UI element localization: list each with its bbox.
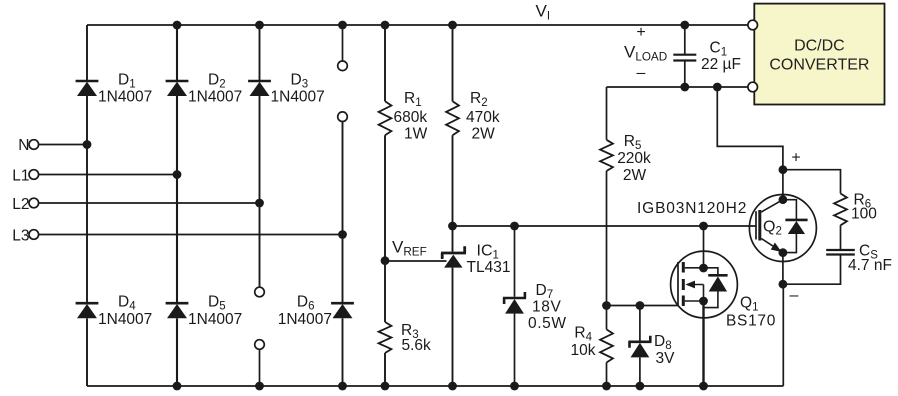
svg-text:100: 100 bbox=[851, 206, 877, 223]
wire L3 input bbox=[39, 234, 343, 236]
diode D6 1N4007 bbox=[331, 303, 354, 318]
svg-text:+: + bbox=[791, 150, 800, 167]
wire C1 top stub bbox=[684, 25, 686, 55]
wire Q2 branch jog bbox=[717, 87, 783, 170]
node L2 junction bbox=[255, 199, 264, 208]
wire VREF to IC1 reference bbox=[385, 260, 447, 262]
svg-text:D6: D6 bbox=[297, 294, 315, 313]
node bottom rail / D6 column bbox=[338, 382, 347, 391]
wire column D6 lower bbox=[342, 121, 344, 386]
diode D7 zener 18V bbox=[503, 292, 526, 314]
terminal L3 bbox=[29, 230, 39, 240]
svg-text:CONVERTER: CONVERTER bbox=[769, 57, 869, 74]
node Q1 source bbox=[699, 297, 708, 306]
svg-text:+: + bbox=[636, 24, 645, 41]
terminal DC/DC input + bbox=[748, 20, 758, 30]
svg-text:470k: 470k bbox=[466, 109, 500, 126]
svg-text:0.5W: 0.5W bbox=[528, 315, 567, 332]
wire bottom rail bbox=[87, 385, 783, 387]
wire column D2-D5 bbox=[176, 25, 178, 386]
svg-text:N: N bbox=[18, 137, 29, 154]
node 226 / R2-IC1 column bbox=[448, 222, 457, 231]
svg-text:3V: 3V bbox=[656, 350, 676, 367]
wire column R5-R4 bbox=[606, 87, 608, 386]
node C1-minus / Q2 branch bbox=[713, 83, 722, 92]
wire Q2 collector lead bbox=[782, 170, 784, 200]
transistor Q1 BS170 n-MOSFET bbox=[671, 251, 738, 318]
svg-text:1N4007: 1N4007 bbox=[188, 311, 242, 328]
terminal L1 bbox=[29, 170, 39, 180]
wire column D3 stub to bottom rail bbox=[259, 350, 261, 387]
diode D3 1N4007 bbox=[248, 81, 271, 96]
wire column D7 bbox=[514, 226, 516, 386]
node bottom rail / IC1 column bbox=[448, 382, 457, 391]
node N junction bbox=[83, 140, 92, 149]
capacitor C1 22uF bbox=[673, 55, 696, 61]
node bottom rail / R3 column bbox=[381, 382, 390, 391]
diode D5 1N4007 bbox=[166, 303, 189, 318]
terminal N bbox=[29, 140, 39, 150]
svg-text:18V: 18V bbox=[532, 299, 561, 316]
node VREF junction bbox=[381, 256, 390, 265]
node C1 minus bbox=[680, 83, 689, 92]
wire column D3 upper bbox=[259, 25, 261, 287]
svg-text:L2: L2 bbox=[12, 196, 29, 213]
wire C1 bottom stub bbox=[684, 61, 686, 88]
wire R6 to CS bbox=[840, 225, 842, 250]
svg-text:R4: R4 bbox=[574, 325, 592, 344]
svg-text:1N4007: 1N4007 bbox=[188, 89, 242, 106]
wire Q2 collector to R6 bbox=[783, 170, 841, 194]
svg-text:4.7 nF: 4.7 nF bbox=[848, 257, 892, 274]
svg-text:TL431: TL431 bbox=[467, 259, 511, 276]
svg-text:VI: VI bbox=[536, 2, 551, 23]
svg-text:220k: 220k bbox=[617, 150, 651, 167]
terminal open circle column D3 lower-upper bbox=[255, 287, 265, 297]
wire column D8 bbox=[639, 306, 641, 387]
wire column D1-D4 (leftmost vertical) bbox=[86, 25, 88, 386]
wire CS to Q2 emitter node bbox=[783, 255, 841, 285]
wire top rail V_I bbox=[87, 24, 748, 26]
diode D4 1N4007 bbox=[76, 303, 99, 318]
node bottom rail / R4 column bbox=[602, 382, 611, 391]
node Q1 drain bbox=[699, 264, 708, 273]
wire Q1 drain lead bbox=[703, 226, 705, 268]
svg-text:1N4007: 1N4007 bbox=[98, 89, 152, 106]
svg-text:22 µF: 22 µF bbox=[701, 56, 741, 73]
node Q2 collector net bbox=[779, 165, 788, 174]
node Q2 emitter bbox=[779, 248, 788, 257]
node top rail / D3 column bbox=[255, 21, 264, 30]
svg-text:R1: R1 bbox=[404, 90, 422, 109]
svg-text:VREF: VREF bbox=[392, 238, 427, 259]
svg-text:10k: 10k bbox=[571, 342, 596, 359]
node bottom rail / D7 column bbox=[510, 382, 519, 391]
wire gate bus R4 to Q1 gate bbox=[607, 305, 679, 307]
node bottom rail / D8 column bbox=[636, 382, 645, 391]
node bottom rail / D3 column bbox=[255, 382, 264, 391]
node top rail / D2 column bbox=[173, 21, 182, 30]
diode D8 zener 3V bbox=[628, 336, 651, 358]
svg-text:IGB03N120H2: IGB03N120H2 bbox=[637, 200, 747, 217]
resistor R5 220k 2W bbox=[600, 140, 613, 171]
svg-text:1N4007: 1N4007 bbox=[271, 89, 325, 106]
svg-text:1W: 1W bbox=[404, 126, 428, 143]
svg-text:1N4007: 1N4007 bbox=[278, 311, 332, 328]
terminal L2 bbox=[29, 198, 39, 208]
resistor R4 10k bbox=[600, 329, 613, 362]
wire Q1 source lead bbox=[702, 301, 704, 386]
svg-text:VLOAD: VLOAD bbox=[624, 43, 667, 64]
svg-text:L1: L1 bbox=[12, 168, 29, 185]
wire column D6 top stub bbox=[342, 25, 344, 61]
node Q2 emitter net bbox=[779, 280, 788, 289]
wire Q2 emitter to bottom rail bbox=[782, 284, 784, 386]
svg-text:–: – bbox=[790, 287, 799, 304]
wire L2 input bbox=[39, 202, 260, 204]
svg-text:–: – bbox=[637, 65, 646, 82]
wire C1-minus bus bbox=[607, 86, 749, 88]
diode D2 1N4007 bbox=[166, 81, 189, 96]
wire column R1-R3 bbox=[384, 25, 386, 386]
transistor Q2 IGB03N120H2 IGBT bbox=[749, 195, 816, 262]
svg-text:D5: D5 bbox=[208, 294, 226, 313]
op-amp IC1 TL431 shunt regulator bbox=[441, 246, 466, 267]
wire Q2 emitter lead bbox=[782, 253, 784, 285]
wire N input bbox=[39, 144, 87, 146]
terminal open circle column D3 lower-lower bbox=[255, 340, 265, 350]
svg-text:2W: 2W bbox=[472, 126, 496, 143]
svg-text:2W: 2W bbox=[623, 167, 647, 184]
svg-text:BS170: BS170 bbox=[726, 313, 776, 330]
node top rail / R1 column bbox=[381, 21, 390, 30]
resistor R6 100 bbox=[834, 194, 847, 226]
node R4-D8-Q1gate junction bbox=[602, 301, 611, 310]
svg-text:R2: R2 bbox=[470, 90, 488, 109]
svg-text:Q2: Q2 bbox=[763, 219, 782, 238]
node L1 junction bbox=[173, 170, 182, 179]
terminal open circle column D6 upper-lower bbox=[338, 112, 348, 122]
diode D1 1N4007 bbox=[76, 81, 99, 96]
node top rail / R2 column bbox=[448, 21, 457, 30]
node bottom rail / D5 column bbox=[173, 382, 182, 391]
resistor R1 680k 1W bbox=[379, 101, 392, 135]
svg-text:D4: D4 bbox=[118, 294, 136, 313]
DC/DC converter block bbox=[754, 4, 884, 105]
svg-text:DC/DC: DC/DC bbox=[794, 38, 845, 55]
svg-text:5.6k: 5.6k bbox=[402, 337, 432, 354]
resistor R2 470k 2W bbox=[446, 101, 459, 135]
wire L1 input bbox=[39, 174, 177, 176]
node Q2 collector bbox=[779, 195, 788, 204]
node top rail / D6 column bbox=[338, 21, 347, 30]
terminal open circle column D6 upper-upper bbox=[338, 61, 348, 71]
node top rail / C1 bbox=[680, 21, 689, 30]
svg-text:680k: 680k bbox=[394, 109, 428, 126]
node L3 junction bbox=[338, 230, 347, 239]
svg-text:Q1: Q1 bbox=[740, 295, 758, 314]
svg-text:1N4007: 1N4007 bbox=[98, 311, 152, 328]
svg-text:L3: L3 bbox=[12, 228, 29, 245]
wire column R2-IC1 bbox=[452, 25, 454, 386]
capacitor CS 4.7nF bbox=[826, 250, 855, 255]
resistor R3 5.6k bbox=[379, 322, 392, 353]
node 226 / Q1 drain column bbox=[699, 222, 708, 231]
node 226 / D7 column bbox=[510, 222, 519, 231]
wire node-226 bus R2 to Q2 gate bbox=[453, 225, 757, 227]
terminal DC/DC input - bbox=[748, 82, 758, 92]
node bottom rail / Q1 source bbox=[699, 382, 708, 391]
node gate bus / D8 column bbox=[636, 301, 645, 310]
